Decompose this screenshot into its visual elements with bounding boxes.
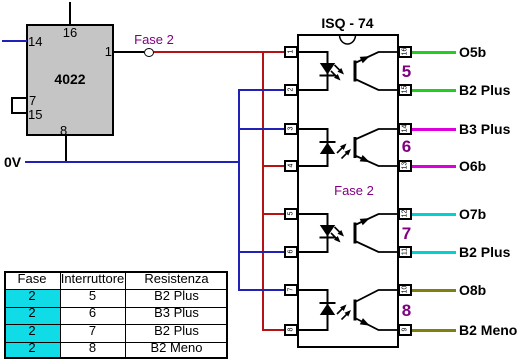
label interruttore 5 bbox=[400, 63, 414, 80]
optocoupler C light arrows bbox=[335, 227, 343, 235]
label Fase 2 (top) bbox=[134, 33, 174, 46]
optocoupler C LED D3 bbox=[320, 225, 335, 237]
U2 notch bbox=[340, 35, 356, 44]
optocoupler B light arrows bbox=[337, 146, 345, 154]
optocoupler B LED wiring bbox=[297, 129, 328, 166]
U1 pin 16 label bbox=[55, 26, 85, 39]
label Fase 2 (middle) bbox=[333, 184, 375, 197]
wire output O7b bbox=[412, 213, 456, 216]
optocoupler C phototransistor Q3 bbox=[354, 223, 357, 244]
U2 pin 7 box bbox=[284, 284, 298, 296]
optocoupler D phototransistor Q4 bbox=[354, 300, 357, 321]
optocoupler D LED D4 bbox=[320, 304, 335, 316]
optocoupler D LED wiring bbox=[297, 290, 328, 330]
optocoupler A LED D1 bbox=[320, 63, 335, 75]
optocoupler A LED wiring bbox=[297, 52, 328, 90]
blue wire to pin 7 bbox=[238, 289, 284, 291]
label B2 Meno bbox=[459, 323, 515, 337]
blue wire to pin 2 bbox=[238, 89, 284, 91]
U2 pin 16 box bbox=[398, 46, 412, 58]
U2 pin 2 box bbox=[284, 84, 298, 96]
red wire to pin 5 bbox=[262, 213, 284, 215]
U2 label ISQ - 74 bbox=[307, 16, 388, 30]
wire pin 8 to 0V bbox=[65, 136, 67, 162]
U2 pin 9 box bbox=[398, 324, 412, 336]
label O5b bbox=[459, 45, 515, 59]
IC U2 ISQ-74 body bbox=[297, 34, 399, 348]
label B2 Plus bbox=[459, 83, 515, 97]
wire 0V blue horizontal bbox=[25, 161, 240, 163]
U1 pin 15 label bbox=[28, 108, 46, 121]
optocoupler D light arrows bbox=[337, 307, 345, 315]
U2 pin 10 box bbox=[398, 284, 412, 296]
U2 pin 4 box bbox=[284, 160, 298, 172]
wire pin 1 output bbox=[114, 51, 144, 53]
U1 pin 7 label bbox=[29, 94, 43, 107]
U2 pin 5 box bbox=[284, 208, 298, 220]
optocoupler B phototransistor Q2 bbox=[354, 137, 357, 158]
U2 pin 3 box bbox=[284, 123, 298, 135]
red wire to pin 4 bbox=[262, 165, 284, 167]
optocoupler B LED D2 bbox=[320, 143, 335, 155]
U1 label 4022 bbox=[40, 72, 100, 86]
red bus vertical bbox=[262, 51, 264, 331]
wire output O5b bbox=[412, 51, 456, 54]
wire Fase 2 red horizontal bbox=[154, 51, 285, 53]
U1 pin 14 label bbox=[28, 35, 48, 48]
wire output B2 Plus bbox=[412, 251, 456, 254]
wire output O6b bbox=[412, 165, 456, 168]
label O8b bbox=[459, 283, 515, 297]
label O6b bbox=[459, 159, 515, 173]
wire output B2 Plus bbox=[412, 89, 456, 92]
U2 pin 12 box bbox=[398, 208, 412, 220]
U2 pin 1 box bbox=[284, 46, 298, 58]
wire pin 16 (top) bbox=[69, 2, 71, 24]
U1 pin 1 label bbox=[98, 45, 112, 58]
U2 pin 15 box bbox=[398, 84, 412, 96]
U1 pin 8 label bbox=[60, 124, 72, 137]
U2 pin 14 box bbox=[398, 123, 412, 135]
wire output B3 Plus bbox=[412, 128, 456, 131]
wire output B2 Meno bbox=[412, 329, 456, 332]
optocoupler A phototransistor Q1 bbox=[354, 61, 357, 82]
blue wire to pin 3 bbox=[238, 128, 284, 130]
wire pin 14 (blue input) bbox=[2, 40, 27, 42]
label interruttore 8 bbox=[400, 302, 414, 319]
IC U1 4022 body bbox=[26, 24, 114, 136]
U2 pin 6 box bbox=[284, 246, 298, 258]
pin 7-15 feedback loop wire bbox=[11, 97, 27, 114]
U2 pin 13 box bbox=[398, 160, 412, 172]
U2 pin 11 box bbox=[398, 246, 412, 258]
U2 pin 8 box bbox=[284, 324, 298, 336]
optocoupler C LED wiring bbox=[297, 214, 328, 252]
blue bus vertical bbox=[238, 89, 240, 291]
wire output O8b bbox=[412, 289, 456, 292]
U2 internals bbox=[297, 34, 399, 348]
label interruttore 6 bbox=[400, 138, 414, 155]
label 0V bbox=[4, 155, 24, 169]
optocoupler A light arrows bbox=[335, 65, 343, 73]
blue wire to pin 6 bbox=[238, 251, 284, 253]
red wire to pin 8 bbox=[262, 329, 284, 331]
label B3 Plus bbox=[459, 122, 515, 136]
label O7b bbox=[459, 207, 515, 221]
node Fase 2 (open circle) bbox=[144, 48, 154, 57]
label interruttore 7 bbox=[400, 225, 414, 242]
label B2 Plus bbox=[459, 245, 515, 259]
table Fase/Interruttore/Resistenza bbox=[4, 271, 228, 359]
